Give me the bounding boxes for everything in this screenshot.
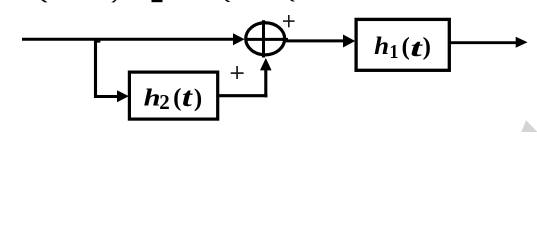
- svg-text:1: 1: [390, 42, 399, 63]
- svg-text:): ): [194, 85, 202, 112]
- svg-text:): ): [423, 33, 431, 60]
- svg-text:2: 2: [159, 90, 170, 114]
- svg-text:h: h: [144, 85, 161, 111]
- svg-text:h: h: [374, 33, 389, 60]
- svg-text:(: (: [402, 33, 410, 60]
- svg-text:t: t: [410, 35, 423, 62]
- svg-text:(: (: [173, 84, 181, 111]
